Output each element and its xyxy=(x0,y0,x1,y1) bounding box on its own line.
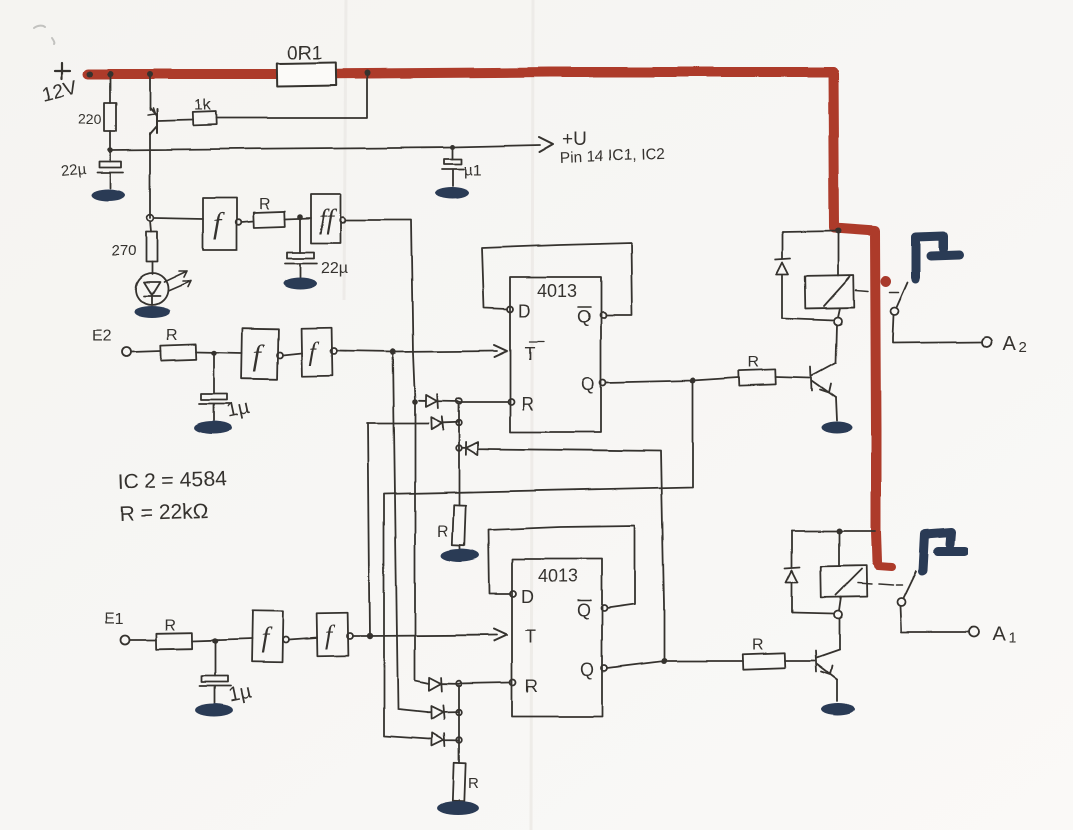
relay K1 bottom wire xyxy=(792,613,833,614)
resistor R pulldown upper xyxy=(452,505,465,545)
gate G6 schmitt inverter xyxy=(317,613,353,657)
BLUE xyxy=(912,236,965,575)
wire Q2 emitter to ground xyxy=(836,398,837,421)
pin D lower xyxy=(510,587,534,607)
svg-text:220: 220 xyxy=(78,111,102,127)
wire E1 to diode D2 xyxy=(367,422,428,424)
gate G3 schmitt inverter xyxy=(242,329,283,380)
ground under pulldown R lower xyxy=(437,801,479,815)
wire Q1 base to 1k xyxy=(158,120,193,121)
ground under Q3 xyxy=(821,703,855,715)
wire upper Q cross coupling down to D7 xyxy=(384,380,693,739)
wire red rail vertical drop right xyxy=(833,72,877,562)
node junction diode bus lower b xyxy=(456,709,462,715)
wire red corner to coil top K2 xyxy=(837,234,839,276)
wire coil bottom to node K1 xyxy=(839,597,841,611)
svg-text:A: A xyxy=(992,623,1006,645)
svg-text:Q: Q xyxy=(580,660,594,680)
wire +12V red supply rail xyxy=(88,72,833,74)
flipflop U1 upper 4013 body xyxy=(510,277,601,432)
wire 12V to resistor 220 xyxy=(109,74,111,103)
ground under timing 22u xyxy=(283,277,317,289)
pin D upper xyxy=(507,301,531,321)
ground under u1 xyxy=(435,187,469,199)
node junction lower Q xyxy=(661,658,667,664)
node junction E2 filter xyxy=(211,350,217,356)
switch S1 moving contact xyxy=(903,571,916,598)
resistor R input E2 xyxy=(161,344,197,360)
switch S1 pivot xyxy=(897,598,905,606)
diode D2 E1 reset upper xyxy=(431,416,459,430)
ground under 22u xyxy=(91,189,125,201)
transistor Q1 (PNP current sense) xyxy=(148,108,157,134)
svg-text:1k: 1k xyxy=(194,97,212,114)
resistor 270 xyxy=(146,232,157,262)
svg-text:T: T xyxy=(525,627,536,647)
arrowhead into T upper xyxy=(494,345,507,357)
node junction at LED branch xyxy=(147,215,154,222)
pin Q lower xyxy=(580,660,607,680)
diode D3 crosslock from lower Q xyxy=(462,442,489,455)
node junction upper Q xyxy=(690,377,696,383)
relay K1 coil box xyxy=(821,566,868,598)
wire G4 out to T of upper 4013 xyxy=(337,351,497,352)
wire 12V to transistor Q1 emitter xyxy=(149,74,151,110)
svg-text:0R1: 0R1 xyxy=(287,43,322,64)
svg-text:µ1: µ1 xyxy=(464,162,482,179)
ground under pulldown R upper xyxy=(441,549,479,562)
wire Q1 collector down xyxy=(149,133,151,218)
dashed mechanical link K2 xyxy=(856,290,899,292)
wire G3 to G4 xyxy=(283,353,302,355)
node red junction dot at A2 switch contact xyxy=(881,276,892,287)
svg-text:Q: Q xyxy=(577,307,591,327)
gate G4 schmitt inverter xyxy=(302,328,337,377)
diode D5 powerup reset lower xyxy=(429,677,459,692)
node junction diode bus upper c xyxy=(456,445,462,451)
terminal E2 xyxy=(123,348,132,357)
wire R pin to diode bus lower xyxy=(459,682,510,683)
dashed mechanical link K1 xyxy=(858,583,902,585)
label A1 xyxy=(992,623,1016,646)
wire powerup reset continues to lower diode D5 xyxy=(415,402,429,683)
node junction diode bus upper b xyxy=(456,420,462,426)
node tap for capacitor u1 xyxy=(451,145,456,150)
svg-text:22µ: 22µ xyxy=(321,260,348,277)
node circle relay K1 bottom xyxy=(834,611,842,619)
svg-text:22µ: 22µ xyxy=(60,160,87,180)
ground under LED xyxy=(134,306,170,318)
svg-text:R: R xyxy=(752,637,764,654)
svg-text:A: A xyxy=(1003,333,1017,355)
resistor R pulldown lower xyxy=(452,763,465,801)
wire node down to 270 xyxy=(150,221,151,232)
node junction E1 filter xyxy=(212,638,218,644)
label A2 xyxy=(1003,333,1027,356)
wire G1 out to R xyxy=(242,221,254,222)
relay K2 coil box xyxy=(805,276,855,309)
label + of supply xyxy=(55,63,70,79)
wire R to ground lower xyxy=(458,800,460,803)
pin Qbar upper xyxy=(577,307,606,327)
pin R lower xyxy=(510,676,538,696)
wire R to base lower xyxy=(785,660,814,662)
wire red stub foot at lower relay xyxy=(878,566,892,567)
relay K1 left branch with flyback diode xyxy=(785,531,800,613)
wire 1k to rail after shunt xyxy=(216,73,367,118)
resistor R (timing) xyxy=(254,211,286,227)
capacitor 1u E1 xyxy=(200,641,231,703)
wire lower Q output to base resistor xyxy=(607,661,743,668)
gate G2 schmitt inverter xyxy=(311,194,346,243)
svg-text:R: R xyxy=(468,775,479,792)
svg-text:+U: +U xyxy=(562,129,587,150)
resistor 0R1 (shunt in red rail) xyxy=(277,62,336,86)
svg-text:T: T xyxy=(524,344,535,364)
capacitor 22u (top-left electrolytic) xyxy=(97,161,123,188)
svg-text:Q: Q xyxy=(577,600,591,620)
paper crease lines xyxy=(344,0,533,830)
svg-text:IC 2 = 4584: IC 2 = 4584 xyxy=(117,467,227,494)
svg-text:R: R xyxy=(164,617,176,634)
node junction R/22u/G2 xyxy=(297,214,303,220)
pin R upper xyxy=(508,394,534,414)
wire Q2 collector to relay xyxy=(836,325,837,363)
wire diode bus down to pulldown R upper xyxy=(458,448,460,505)
node junction relay K2 at red rail xyxy=(835,228,841,234)
pin Qbar lower xyxy=(577,600,607,620)
svg-text:R: R xyxy=(437,523,449,540)
pin Q upper xyxy=(581,374,606,394)
node junction 220/cap/+U xyxy=(107,147,113,153)
terminal E1 xyxy=(121,636,130,645)
LED arrows xyxy=(164,271,191,291)
resistor R base lower xyxy=(743,653,785,669)
svg-text:E2: E2 xyxy=(92,328,112,345)
node junction powerup at diode D1 xyxy=(412,399,418,405)
wire node to gate G1 xyxy=(154,218,203,219)
ground under Q2 xyxy=(821,422,853,434)
svg-text:R: R xyxy=(525,676,538,696)
wire E2 to R xyxy=(132,351,161,352)
LED D8 xyxy=(136,262,168,305)
pushbutton actuator S2 (blue) xyxy=(912,236,959,283)
pushbutton actuator S1 (blue) xyxy=(918,532,965,575)
pencil smudge top-left xyxy=(34,26,54,44)
relay K2 left branch with flyback diode xyxy=(775,232,790,318)
switch S2 moving contact xyxy=(897,282,908,307)
resistor R input E1 xyxy=(156,633,192,650)
node junction E2 line xyxy=(390,349,396,355)
capacitor u1 xyxy=(442,147,464,186)
terminal A2 xyxy=(982,337,992,347)
svg-text:1: 1 xyxy=(1008,629,1016,646)
pin T upper xyxy=(524,342,544,364)
svg-text:R: R xyxy=(748,354,760,371)
wire upper Q output to base resistor xyxy=(606,377,739,382)
wire E1 to R xyxy=(130,639,156,641)
wire R pin to diode bus upper xyxy=(459,401,508,403)
wire E1 line up to diode D2 xyxy=(368,423,370,636)
terminal A1 xyxy=(969,627,979,637)
node junction diode bus upper a xyxy=(456,398,462,404)
wire diode bus vertical upper xyxy=(458,404,460,448)
wire coil bottom to node K2 xyxy=(838,308,840,317)
node junction diode bus lower a xyxy=(456,680,462,686)
relay K1 frame top wire xyxy=(792,530,875,532)
switch S2 pivot xyxy=(891,307,899,315)
wire R to gate G3 xyxy=(196,352,242,353)
svg-text:Q: Q xyxy=(581,374,595,394)
gate G5 schmitt inverter xyxy=(252,611,289,663)
wire D3 to lower Q column xyxy=(489,449,664,661)
wire Q3 emitter to ground xyxy=(836,680,838,701)
capacitor 22u (timing electrolytic) xyxy=(285,218,317,277)
flipflop U2 lower 4013 body xyxy=(512,559,602,717)
wire Q3 collector to relay xyxy=(838,620,840,650)
node junction dots on red rail xyxy=(87,70,370,77)
capacitor 1u E2 xyxy=(199,353,230,421)
node circle relay K2 bottom xyxy=(834,317,842,325)
wire S1 to terminal A1 xyxy=(900,606,969,632)
diode D6 E2 reset lower xyxy=(427,705,459,720)
wire D to Qbar feedback loop upper xyxy=(482,243,632,315)
svg-text:R: R xyxy=(259,196,271,213)
wire R to gate G5 xyxy=(192,639,252,641)
relay K2 frame top wire xyxy=(782,231,838,232)
svg-text:270: 270 xyxy=(111,242,136,259)
transistor Q3 lower NPN xyxy=(815,650,839,680)
wire R to ground upper xyxy=(459,545,461,550)
wire S2 to terminal A2 xyxy=(893,315,982,343)
wire G5 to G6 xyxy=(289,638,317,640)
resistor 1k xyxy=(193,112,216,126)
ground under 1u E1 xyxy=(195,704,233,717)
wire D to Qbar feedback loop lower xyxy=(488,526,635,608)
diode D1 powerup reset upper xyxy=(419,394,459,409)
node junction relay K1 top xyxy=(836,528,842,534)
relay K2 bottom wire xyxy=(782,318,834,320)
resistor R base upper xyxy=(739,369,777,385)
node junction E1 line xyxy=(367,633,373,639)
svg-text:D: D xyxy=(521,587,534,607)
gate G1 schmitt inverter xyxy=(203,198,242,250)
diode D7 upper Q reset lower xyxy=(429,733,459,747)
wire G2 out to powerup reset line xyxy=(346,220,415,402)
wire diode bus vertical lower xyxy=(458,685,460,763)
transistor Q2 upper NPN xyxy=(811,363,836,398)
arrowhead +U xyxy=(539,137,553,152)
svg-text:R: R xyxy=(166,327,178,344)
svg-text:D: D xyxy=(518,301,531,321)
REDNET xyxy=(88,72,892,567)
wire R to base upper xyxy=(776,377,810,378)
wire 220 to node xyxy=(109,131,111,161)
svg-text:E1: E1 xyxy=(104,611,124,628)
svg-text:R: R xyxy=(521,394,534,414)
resistor 220 xyxy=(104,103,116,131)
wire G6 out to T of lower 4013 xyxy=(353,635,497,636)
svg-text:R = 22kΩ: R = 22kΩ xyxy=(119,500,208,526)
node junction diode bus lower c xyxy=(456,737,462,743)
svg-text:4013: 4013 xyxy=(538,566,578,586)
svg-text:2: 2 xyxy=(1019,339,1027,356)
wire +U distribution line xyxy=(110,145,540,150)
ground under 1u E2 xyxy=(194,422,232,435)
svg-text:4013: 4013 xyxy=(537,281,577,301)
arrowhead into T lower xyxy=(494,629,507,641)
wire node to coil top K1 xyxy=(838,531,840,566)
wire E2 line down to diode D6 xyxy=(393,354,427,712)
wire R to node to G2 xyxy=(285,218,311,219)
